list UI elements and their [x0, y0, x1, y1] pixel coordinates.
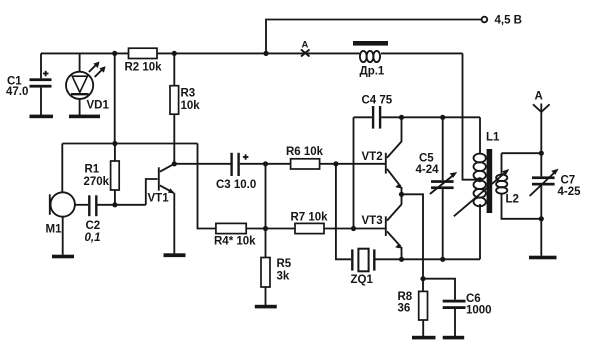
node R2 left junction: [112, 51, 117, 56]
svg-text:3k: 3k: [277, 270, 290, 282]
ground R8: [412, 336, 436, 340]
svg-text:4-25: 4-25: [558, 186, 582, 198]
LED VD1: [66, 53, 109, 115]
svg-text:C3 10.0: C3 10.0: [216, 179, 256, 191]
ground R5: [255, 305, 277, 309]
node C5 top junction: [440, 115, 445, 120]
svg-text:L1: L1: [486, 131, 500, 143]
node supply junction: [263, 51, 268, 56]
wire R6 node down to ZQ1: [336, 164, 351, 259]
svg-text:1000: 1000: [466, 305, 492, 317]
node VT3 base junction: [351, 226, 356, 231]
wire mic bias rail: [62, 53, 216, 228]
capacitor C1: [6, 53, 52, 115]
node R1 top junction: [112, 141, 117, 146]
svg-text:C6: C6: [466, 293, 481, 305]
wire 4.5V branch: [266, 20, 482, 54]
wire top supply rail y=53.4: [41, 52, 463, 54]
node R4 R7 R5 junction: [263, 226, 268, 231]
svg-text:R5: R5: [277, 258, 292, 270]
svg-text:C2: C2: [86, 220, 101, 232]
capacitor C4: [354, 95, 481, 129]
resistor R2: [125, 48, 163, 73]
svg-text:47.0: 47.0: [6, 86, 28, 98]
node VT1 collector junction: [172, 161, 177, 166]
node VT3 emitter junction: [399, 257, 404, 262]
resistor R3: [170, 53, 200, 163]
ground VT1: [164, 253, 186, 257]
capacitor C5 variable: [416, 117, 458, 259]
node R8 C6 junction: [420, 276, 425, 281]
inductor Dr.1 choke: [353, 41, 388, 78]
node L2 bottom junction: [539, 216, 544, 221]
svg-text:4-24: 4-24: [416, 164, 440, 176]
capacitor C7 variable: [530, 153, 582, 256]
transistor VT1: [146, 164, 175, 254]
microphone M1: [46, 144, 89, 255]
svg-text:VT3: VT3: [362, 215, 383, 227]
svg-text:36: 36: [398, 302, 411, 314]
svg-text:270k: 270k: [84, 176, 110, 188]
svg-text:R6 10k: R6 10k: [286, 146, 324, 158]
svg-text:R7 10k: R7 10k: [291, 212, 329, 224]
node R6 output junction: [333, 161, 338, 166]
svg-text:ZQ1: ZQ1: [351, 274, 374, 286]
wire C3 node down to R4 node: [265, 164, 267, 229]
terminal 4,5 V: [482, 15, 522, 27]
svg-text:A: A: [302, 40, 309, 51]
ground M1: [52, 255, 74, 259]
wire collector to C3: [174, 163, 230, 165]
svg-text:R1: R1: [85, 164, 100, 176]
node C2 R1 junction: [112, 202, 117, 207]
svg-text:0,1: 0,1: [85, 232, 101, 244]
svg-text:4,5 В: 4,5 В: [495, 15, 523, 27]
resistor R8: [398, 279, 428, 336]
antenna A: [533, 91, 550, 154]
svg-text:C5: C5: [419, 152, 434, 164]
node A break mark: [301, 40, 310, 57]
ground C1: [30, 115, 54, 119]
transistor VT2: [362, 117, 403, 194]
svg-text:Др.1: Др.1: [360, 66, 385, 78]
node VT2 collector junction: [399, 115, 404, 120]
ground VD1: [69, 115, 100, 119]
svg-text:C4 75: C4 75: [362, 95, 393, 107]
svg-text:VT1: VT1: [148, 193, 170, 205]
svg-text:VD1: VD1: [87, 99, 110, 111]
node L1 tap junction: [477, 177, 482, 182]
resistor R5: [261, 229, 292, 306]
crystal ZQ1: [351, 249, 481, 287]
transistor VT3: [362, 194, 403, 259]
resistor R4*: [214, 223, 295, 247]
svg-text:L2: L2: [506, 194, 519, 206]
node VT2 emitter VT3 collector junction: [399, 192, 404, 197]
wire choke down to L1 tap: [463, 53, 480, 179]
svg-text:A: A: [535, 91, 543, 103]
node C5 bottom junction: [440, 257, 445, 262]
resistor R7: [291, 212, 386, 234]
transformer tuning arrow: [454, 169, 510, 216]
node R3 top junction: [172, 51, 177, 56]
capacitor C2: [85, 195, 146, 244]
svg-text:10k: 10k: [181, 100, 201, 112]
inductor L2: [496, 153, 541, 219]
svg-text:R4* 10k: R4* 10k: [214, 236, 256, 248]
capacitor C6: [423, 279, 492, 336]
svg-text:R3: R3: [181, 88, 196, 100]
svg-text:R2 10k: R2 10k: [125, 62, 163, 74]
svg-text:VT2: VT2: [362, 151, 383, 163]
transformer core: [487, 149, 493, 213]
node C3 output junction: [263, 161, 268, 166]
ground C7: [529, 256, 557, 260]
node antenna L2 top junction: [539, 151, 544, 156]
wire VT2 emitter node to R8: [402, 194, 424, 278]
inductor L1: [474, 117, 501, 259]
resistor R6: [286, 146, 385, 169]
svg-text:C7: C7: [561, 174, 576, 186]
ground C6: [443, 336, 465, 340]
capacitor C3: [216, 153, 291, 191]
wire C4 left down to VT3 base: [353, 117, 355, 228]
resistor R1: [84, 144, 120, 205]
svg-text:M1: M1: [46, 223, 63, 235]
